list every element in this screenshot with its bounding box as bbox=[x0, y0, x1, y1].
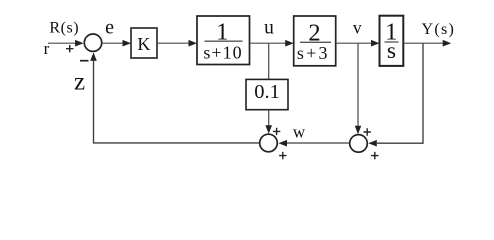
block H 0.1 bbox=[246, 79, 288, 109]
wire branch u down bbox=[268, 43, 270, 80]
svg-text:e: e bbox=[105, 17, 114, 39]
summing junction S3 bbox=[350, 135, 368, 153]
svg-text:0.1: 0.1 bbox=[254, 81, 280, 103]
summing junction S2 bbox=[260, 134, 278, 152]
block K bbox=[131, 28, 157, 58]
wire S2 feedback z to S1 bbox=[94, 61, 260, 143]
wire G1 to G2 bbox=[250, 42, 287, 44]
minus sign feedback bbox=[80, 60, 89, 62]
plus sign S2 top bbox=[273, 128, 280, 135]
svg-text:r: r bbox=[44, 39, 50, 58]
plus sign S3 bottom bbox=[371, 152, 378, 159]
summing junction S1 bbox=[84, 34, 101, 51]
svg-text:s: s bbox=[387, 38, 396, 64]
plus sign S2 bottom bbox=[279, 152, 286, 159]
block G2 2/(s+3) bbox=[294, 16, 336, 66]
plus sign S3 top bbox=[364, 128, 371, 135]
svg-text:v: v bbox=[353, 18, 362, 38]
wire S3 to S2 bbox=[287, 142, 350, 144]
wire input r bbox=[48, 42, 77, 44]
svg-text:K: K bbox=[137, 34, 150, 54]
svg-text:s+10: s+10 bbox=[203, 43, 242, 63]
wire S1 to K bbox=[102, 42, 124, 44]
wire G2 to G3 bbox=[336, 42, 373, 44]
svg-text:z: z bbox=[74, 69, 85, 96]
svg-text:Y(s): Y(s) bbox=[421, 21, 455, 38]
wire H to S2 bbox=[268, 110, 270, 127]
svg-text:s+3: s+3 bbox=[297, 43, 330, 63]
wire K to G1 bbox=[157, 42, 190, 44]
svg-text:u: u bbox=[264, 18, 274, 39]
svg-text:R(s): R(s) bbox=[49, 20, 79, 37]
block G3 1/s bbox=[380, 16, 404, 66]
block G1 1/(s+10) bbox=[197, 16, 250, 65]
wire output Y bbox=[403, 42, 444, 44]
plus sign input r bbox=[66, 45, 73, 52]
svg-text:w: w bbox=[293, 123, 306, 142]
wire branch v down to S3 bbox=[357, 43, 359, 127]
wire output branch down and into S3 bbox=[377, 43, 423, 143]
